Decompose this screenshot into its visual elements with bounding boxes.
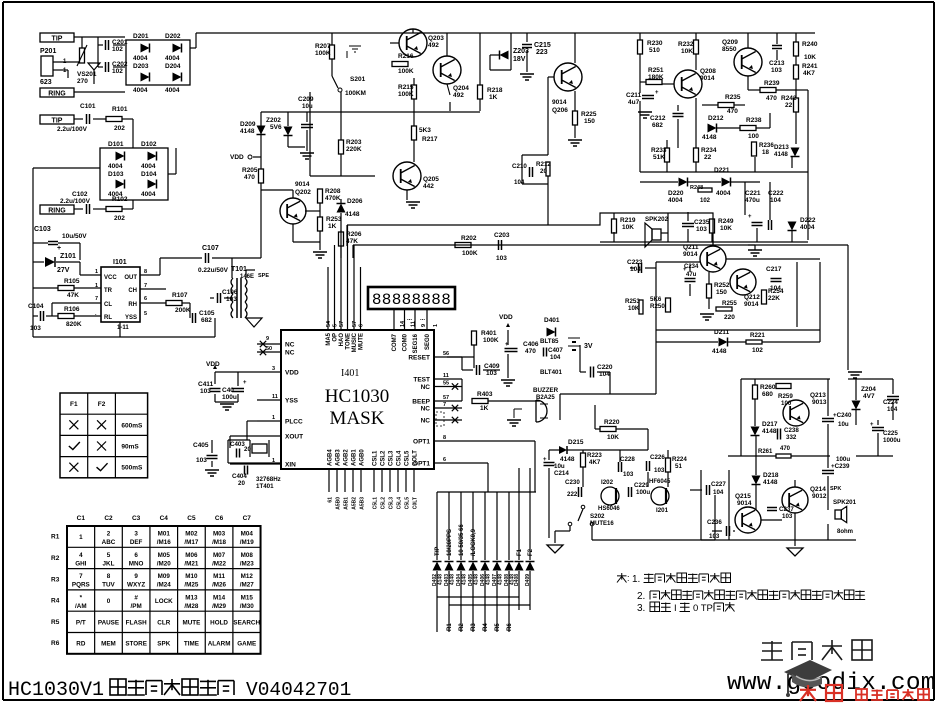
svg-text:R253: R253 (625, 298, 640, 305)
svg-text:YSS: YSS (285, 398, 299, 405)
svg-text:C411: C411 (198, 381, 214, 388)
svg-text:TUV: TUV (102, 582, 115, 589)
svg-text:Q206: Q206 (552, 107, 568, 114)
svg-text:D103: D103 (108, 171, 124, 178)
svg-text:VDD: VDD (230, 154, 244, 161)
svg-text:F2: F2 (98, 401, 106, 408)
svg-text:C3: C3 (132, 515, 141, 522)
svg-text:5: 5 (144, 311, 147, 317)
svg-text:Q209: Q209 (722, 39, 738, 46)
svg-text:R1: R1 (447, 623, 453, 631)
svg-text:32768Hz: 32768Hz (256, 476, 281, 483)
svg-text:JKL: JKL (103, 560, 115, 567)
svg-text:P201: P201 (40, 48, 56, 55)
svg-text:Q203: Q203 (428, 35, 444, 42)
svg-text:I202: I202 (601, 479, 614, 486)
svg-text:T101: T101 (231, 266, 247, 273)
svg-text:LOCK: LOCK (155, 598, 173, 605)
svg-text:4148: 4148 (774, 151, 788, 158)
svg-text:R225: R225 (581, 111, 597, 118)
svg-text:D104: D104 (141, 171, 157, 178)
svg-text:R261: R261 (758, 449, 773, 455)
svg-text:+: + (870, 422, 874, 428)
svg-text:103: 103 (496, 255, 507, 262)
svg-text:XOUT: XOUT (285, 434, 303, 441)
svg-text:4K7: 4K7 (589, 459, 601, 466)
svg-text:OUT: OUT (124, 275, 137, 281)
svg-text:57: 57 (352, 321, 358, 327)
svg-text:270: 270 (77, 78, 88, 85)
svg-text:R217: R217 (422, 136, 438, 143)
svg-text:M01: M01 (158, 531, 171, 538)
svg-text:10K: 10K (804, 54, 816, 61)
svg-text:CSL4: CSL4 (397, 450, 403, 466)
svg-text:SPK: SPK (157, 641, 170, 648)
svg-text:R101: R101 (112, 106, 128, 113)
svg-text:/M20: /M20 (157, 560, 171, 567)
svg-text:SEG16: SEG16 (413, 333, 419, 353)
svg-text:202: 202 (114, 125, 125, 132)
svg-text:HC1030V1: HC1030V1 (8, 679, 104, 702)
svg-text:R4: R4 (51, 598, 60, 605)
svg-text:C235: C235 (694, 219, 710, 226)
svg-text:/M19: /M19 (240, 539, 254, 546)
svg-text:7: 7 (443, 402, 446, 408)
svg-text:STORE: STORE (125, 641, 147, 648)
svg-text:COM7: COM7 (392, 333, 398, 351)
svg-text:TEST: TEST (413, 377, 430, 384)
svg-text:M04: M04 (241, 531, 254, 538)
svg-text:A5B2: A5B2 (352, 497, 358, 510)
svg-text:VDD: VDD (285, 370, 299, 377)
svg-text:R1: R1 (51, 534, 60, 541)
svg-text:1: 1 (272, 415, 275, 421)
svg-text:4148: 4148 (462, 574, 468, 585)
svg-text:50: 50 (266, 346, 272, 352)
svg-text:9: 9 (134, 573, 138, 580)
svg-text:C1: C1 (77, 515, 86, 522)
svg-text:C405: C405 (193, 442, 209, 449)
svg-text:C104: C104 (28, 303, 44, 310)
svg-text:/M30: /M30 (240, 603, 254, 610)
svg-text:HC1030: HC1030 (325, 386, 389, 407)
svg-text:4148: 4148 (474, 574, 480, 585)
svg-text:2.: 2. (637, 591, 645, 602)
svg-text:Z204: Z204 (861, 386, 876, 393)
svg-text:9013: 9013 (812, 399, 827, 406)
svg-text:R253: R253 (326, 216, 342, 223)
svg-text:R252: R252 (714, 282, 730, 289)
svg-text:R207: R207 (315, 43, 331, 50)
svg-text:C209: C209 (298, 96, 314, 103)
svg-text:A5B1: A5B1 (344, 497, 350, 510)
svg-text:R205: R205 (242, 167, 258, 174)
svg-text:SPE: SPE (258, 273, 269, 279)
svg-text:CLR: CLR (157, 619, 170, 626)
svg-text:1000u: 1000u (883, 437, 901, 444)
svg-text:/M25: /M25 (184, 582, 198, 589)
svg-text:9014: 9014 (683, 251, 698, 258)
svg-text:D409: D409 (525, 574, 531, 586)
svg-text:VDD: VDD (206, 361, 220, 368)
svg-text:R206: R206 (346, 231, 362, 238)
svg-text:Z202: Z202 (266, 117, 281, 124)
svg-text:R240: R240 (802, 41, 818, 48)
svg-text:222: 222 (567, 491, 578, 498)
svg-text:VDD: VDD (499, 314, 513, 321)
svg-text:R5: R5 (51, 619, 60, 626)
svg-text:4148: 4148 (702, 134, 717, 141)
svg-text:C217: C217 (766, 266, 782, 273)
svg-text:102: 102 (112, 68, 123, 75)
svg-text:22K: 22K (768, 295, 780, 302)
svg-text:+: + (505, 342, 509, 348)
svg-text:R6: R6 (507, 623, 513, 631)
svg-text:R255: R255 (722, 300, 737, 307)
svg-text:SPK202: SPK202 (645, 216, 669, 223)
svg-text:Z101: Z101 (60, 253, 76, 260)
svg-text:18: 18 (762, 149, 769, 156)
svg-text:C224: C224 (883, 399, 898, 406)
svg-text:D221: D221 (714, 167, 730, 174)
svg-text:C203: C203 (494, 232, 510, 239)
svg-text:C0LT: C0LT (413, 497, 419, 509)
svg-text:AGB4: AGB4 (328, 449, 334, 466)
svg-text:C237: C237 (779, 506, 794, 513)
svg-text:F2: F2 (528, 548, 534, 556)
svg-text:RL: RL (104, 315, 112, 321)
svg-text:CSL1: CSL1 (373, 450, 379, 466)
svg-text:56: 56 (443, 351, 449, 357)
svg-text:MUTE: MUTE (359, 333, 365, 350)
svg-text:8: 8 (443, 435, 446, 441)
svg-text:SEARCH: SEARCH (233, 619, 260, 626)
svg-text:R106: R106 (64, 306, 80, 313)
svg-text:D222: D222 (800, 217, 816, 224)
svg-text:Q214: Q214 (810, 486, 826, 493)
svg-text:GHI: GHI (75, 560, 86, 567)
svg-text:5K3: 5K3 (419, 127, 431, 134)
svg-text:4148: 4148 (763, 479, 778, 486)
svg-text:R202: R202 (461, 235, 477, 242)
svg-text:103: 103 (30, 325, 41, 332)
svg-text:100KM: 100KM (345, 90, 366, 97)
svg-text:1K: 1K (480, 405, 489, 412)
svg-text:C4: C4 (160, 515, 169, 522)
svg-text:C103: C103 (34, 226, 51, 233)
svg-text:D202: D202 (165, 33, 181, 40)
svg-text:492: 492 (453, 92, 464, 99)
svg-text:T/P: T/P (435, 547, 441, 556)
svg-text:100K: 100K (398, 91, 414, 98)
svg-text:C5L4: C5L4 (397, 497, 403, 509)
svg-text:0 TP: 0 TP (693, 603, 713, 614)
svg-text:Q202: Q202 (295, 189, 311, 196)
svg-text:146E: 146E (240, 274, 254, 280)
svg-text:RH: RH (128, 302, 137, 308)
svg-text:#: # (134, 594, 138, 601)
svg-text:C238: C238 (784, 427, 799, 434)
svg-text:10 50/35 66: 10 50/35 66 (459, 524, 465, 556)
svg-text:XIN: XIN (285, 462, 296, 469)
svg-text:MASK: MASK (330, 408, 385, 429)
svg-text:22: 22 (785, 102, 793, 109)
svg-text:11: 11 (272, 394, 278, 400)
svg-text:AGB0: AGB0 (360, 449, 366, 466)
svg-text:+C239: +C239 (831, 463, 850, 470)
svg-text:ALARM: ALARM (208, 641, 231, 648)
svg-text:PQRS: PQRS (72, 582, 90, 589)
svg-text:C221: C221 (745, 190, 761, 197)
svg-text:C409: C409 (484, 363, 500, 370)
svg-text:A5B0: A5B0 (336, 497, 342, 510)
svg-text:D102: D102 (141, 141, 157, 148)
svg-text:C5L2: C5L2 (381, 497, 387, 509)
svg-text:103: 103 (709, 533, 720, 540)
svg-text:R235: R235 (725, 94, 741, 101)
svg-text:R223: R223 (587, 452, 602, 459)
svg-text:D206: D206 (347, 198, 363, 205)
svg-text:FLASH: FLASH (126, 619, 147, 626)
svg-text:RESET: RESET (408, 355, 430, 362)
svg-text:4004: 4004 (165, 55, 180, 62)
svg-text:104: 104 (630, 266, 641, 273)
svg-text:4148: 4148 (712, 348, 727, 355)
svg-text:RING: RING (48, 208, 66, 215)
svg-text:PAUSE: PAUSE (98, 619, 119, 626)
svg-text:D101: D101 (108, 141, 124, 148)
svg-text:R248: R248 (690, 185, 703, 191)
svg-text:104: 104 (713, 489, 724, 496)
svg-text:+: + (748, 214, 752, 220)
svg-text:R203: R203 (346, 139, 362, 146)
svg-text:10K: 10K (628, 305, 640, 312)
svg-text:55: 55 (443, 381, 449, 387)
svg-text:/M17: /M17 (184, 539, 198, 546)
svg-text:682: 682 (201, 317, 212, 324)
svg-text:3.: 3. (637, 603, 645, 614)
svg-text:600mS: 600mS (121, 422, 143, 429)
svg-text:C214: C214 (554, 470, 569, 477)
svg-text:1T401: 1T401 (256, 483, 274, 490)
svg-text:R216: R216 (398, 53, 414, 60)
svg-text:M07: M07 (213, 552, 226, 559)
svg-text:4u7: 4u7 (628, 99, 640, 106)
svg-text:0: 0 (107, 598, 111, 605)
svg-text:6: 6 (144, 296, 147, 302)
svg-text:4004: 4004 (668, 197, 683, 204)
svg-text:WXYZ: WXYZ (127, 582, 145, 589)
svg-text:8ohm: 8ohm (837, 529, 853, 535)
svg-text:B2A25: B2A25 (536, 395, 555, 401)
svg-text:M11: M11 (213, 573, 225, 580)
svg-text:9014: 9014 (737, 500, 752, 507)
svg-text:103: 103 (486, 370, 497, 377)
svg-text:M13: M13 (185, 594, 198, 601)
svg-text:9012: 9012 (812, 493, 827, 500)
svg-text:C227: C227 (711, 481, 726, 488)
svg-text:R4: R4 (483, 623, 489, 631)
svg-text:C228: C228 (620, 456, 635, 463)
svg-text:I101: I101 (113, 259, 127, 266)
svg-text:M05: M05 (158, 552, 171, 559)
svg-text:/M29: /M29 (212, 603, 226, 610)
svg-text:RING: RING (48, 91, 66, 98)
svg-text:102: 102 (700, 198, 711, 204)
svg-text:BLT85: BLT85 (540, 338, 559, 345)
svg-text:C5: C5 (187, 515, 196, 522)
svg-text:180K: 180K (648, 74, 664, 81)
svg-text:ABC: ABC (102, 539, 116, 546)
svg-text:200K: 200K (175, 307, 191, 314)
svg-text:680: 680 (762, 391, 773, 398)
svg-text:4004: 4004 (800, 224, 815, 231)
svg-text:C220: C220 (597, 364, 613, 371)
svg-text:C211: C211 (626, 92, 642, 99)
svg-text:MUSIC: MUSIC (352, 332, 358, 352)
svg-text:R249: R249 (718, 218, 734, 225)
svg-text:R403: R403 (477, 391, 493, 398)
svg-text:C101: C101 (80, 103, 96, 110)
svg-text:61: 61 (328, 497, 334, 503)
svg-text:HAO: HAO (339, 333, 345, 347)
svg-text:0.22u/50V: 0.22u/50V (198, 267, 229, 274)
svg-text:4004: 4004 (165, 87, 180, 94)
svg-text:27V: 27V (57, 267, 70, 274)
svg-text:220K: 220K (346, 146, 362, 153)
svg-text:R107: R107 (172, 292, 188, 299)
svg-text:S202: S202 (590, 513, 605, 520)
svg-text:R105: R105 (64, 278, 80, 285)
svg-text:MNO: MNO (129, 560, 144, 567)
svg-text:+: + (543, 457, 547, 463)
svg-text:51: 51 (675, 463, 682, 470)
svg-text:1.: 1. (632, 574, 640, 585)
svg-text:OPT1: OPT1 (413, 439, 430, 446)
svg-text:C213: C213 (769, 60, 785, 67)
svg-text:9014: 9014 (700, 75, 715, 82)
svg-text:D213: D213 (774, 144, 789, 151)
svg-text:C5L5: C5L5 (405, 497, 411, 509)
svg-text:M08: M08 (241, 552, 254, 559)
svg-text:R401: R401 (481, 330, 497, 337)
svg-text:M09: M09 (158, 573, 171, 580)
svg-text:PLCC: PLCC (285, 419, 303, 426)
svg-text:47u: 47u (686, 272, 697, 278)
svg-text:/LOCK0,9: /LOCK0,9 (471, 528, 477, 556)
svg-text:C234: C234 (684, 264, 699, 270)
svg-text:10/20PPS: 10/20PPS (447, 529, 453, 556)
svg-text:C225: C225 (883, 430, 898, 437)
svg-text:/M28: /M28 (184, 603, 198, 610)
svg-text:3: 3 (272, 366, 275, 372)
svg-text:BLT401: BLT401 (540, 369, 562, 376)
svg-text:NC: NC (421, 406, 431, 413)
svg-text:510: 510 (649, 47, 660, 54)
svg-text:22: 22 (704, 154, 712, 161)
svg-text:8: 8 (144, 269, 147, 275)
svg-text:R230: R230 (647, 40, 663, 47)
svg-text:103: 103 (696, 226, 707, 233)
svg-text:88888888: 88888888 (372, 291, 451, 309)
svg-text:R250: R250 (650, 303, 665, 310)
svg-text:SEG0: SEG0 (425, 333, 431, 350)
svg-text:10u: 10u (302, 103, 313, 110)
svg-text:R5: R5 (495, 623, 501, 631)
svg-text:A5B3: A5B3 (360, 497, 366, 510)
svg-text:3: 3 (134, 531, 138, 538)
svg-text:103: 103 (623, 471, 634, 478)
svg-text:1K: 1K (489, 94, 498, 101)
svg-text:100K: 100K (315, 50, 331, 57)
svg-text:TR: TR (104, 288, 113, 294)
svg-text:R3: R3 (51, 576, 60, 583)
svg-text:R242: R242 (781, 95, 797, 102)
svg-text:MUTE: MUTE (183, 619, 201, 626)
svg-text:1: 1 (79, 534, 83, 541)
svg-text:+: + (57, 245, 61, 252)
svg-text:4004: 4004 (108, 191, 123, 198)
svg-text:SPK: SPK (830, 486, 841, 492)
svg-text:D209: D209 (240, 121, 256, 128)
svg-text:TIP: TIP (52, 118, 63, 125)
svg-text:4004: 4004 (141, 191, 156, 198)
svg-text:6: 6 (443, 457, 446, 463)
svg-text:Q213: Q213 (810, 392, 826, 399)
svg-text:4V7: 4V7 (863, 393, 875, 400)
svg-text:4004: 4004 (716, 190, 731, 197)
svg-text:10K: 10K (681, 48, 693, 55)
svg-text::: : (627, 573, 630, 583)
svg-text:470: 470 (780, 446, 791, 452)
svg-text:C40: C40 (222, 387, 234, 394)
svg-text:/AM: /AM (75, 603, 87, 610)
svg-text:470u: 470u (745, 197, 760, 204)
svg-text:Q211: Q211 (683, 244, 699, 251)
svg-text:R221: R221 (750, 332, 765, 339)
svg-text:4004: 4004 (108, 163, 123, 170)
svg-text:CH: CH (128, 288, 137, 294)
svg-text:100u: 100u (222, 394, 237, 401)
svg-text:470: 470 (244, 174, 255, 181)
svg-text:1: 1 (95, 269, 98, 275)
svg-text:8: 8 (107, 573, 111, 580)
svg-text:R234: R234 (701, 147, 717, 154)
svg-text:MUTE16: MUTE16 (590, 521, 614, 527)
svg-text:C230: C230 (565, 479, 580, 486)
svg-text:R220: R220 (604, 419, 620, 426)
svg-text:D215: D215 (568, 439, 584, 446)
svg-text:M03: M03 (213, 531, 226, 538)
svg-text:C229: C229 (634, 482, 649, 489)
svg-text:COM0: COM0 (403, 333, 409, 351)
svg-text:332: 332 (786, 434, 797, 441)
svg-text:R3: R3 (471, 623, 477, 631)
svg-text:C7: C7 (243, 515, 252, 522)
svg-text:R219: R219 (620, 217, 636, 224)
svg-text:54: 54 (326, 320, 332, 327)
svg-text:TONE: TONE (346, 333, 352, 350)
svg-text:223: 223 (536, 49, 548, 56)
svg-text:4004: 4004 (133, 87, 148, 94)
svg-text:7: 7 (95, 296, 98, 302)
svg-text:9014: 9014 (552, 99, 567, 106)
svg-text:4004: 4004 (133, 55, 148, 62)
svg-text:470: 470 (727, 108, 738, 115)
svg-text:C406: C406 (523, 341, 539, 348)
svg-text:HS6046: HS6046 (598, 506, 620, 512)
svg-text:1: 1 (433, 324, 439, 327)
